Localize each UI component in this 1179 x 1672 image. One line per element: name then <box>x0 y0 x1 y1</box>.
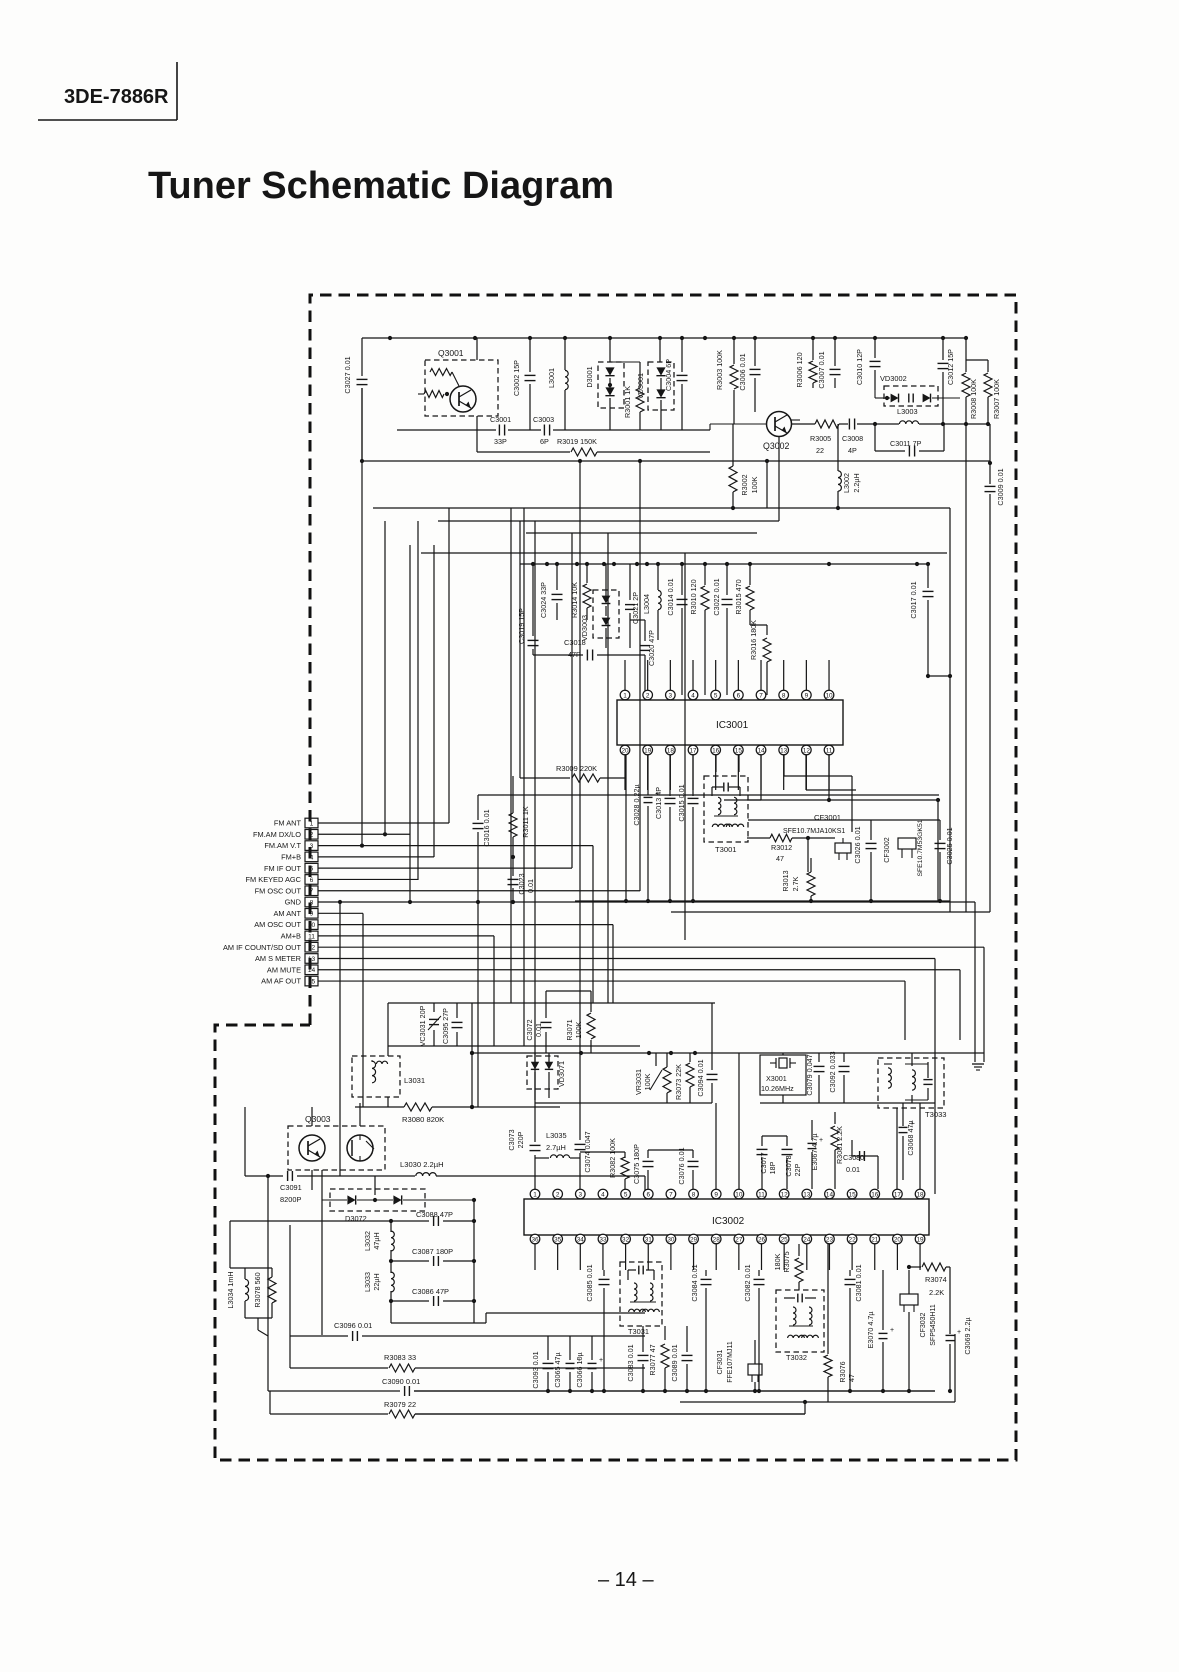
svg-text:9: 9 <box>714 1191 718 1198</box>
svg-text:28: 28 <box>713 1236 721 1243</box>
svg-text:14: 14 <box>308 967 316 974</box>
svg-text:L3001: L3001 <box>547 368 556 388</box>
svg-text:220P: 220P <box>516 1131 525 1148</box>
svg-text:10: 10 <box>825 692 833 699</box>
svg-text:36: 36 <box>531 1236 539 1243</box>
svg-text:C3017 0.01: C3017 0.01 <box>909 581 918 618</box>
svg-text:4: 4 <box>601 1191 605 1198</box>
svg-text:C3082 0.01: C3082 0.01 <box>743 1264 752 1301</box>
svg-text:25: 25 <box>781 1236 789 1243</box>
svg-text:8200P: 8200P <box>280 1195 301 1204</box>
svg-text:C3020 47P: C3020 47P <box>647 630 656 666</box>
svg-text:12: 12 <box>781 1191 789 1198</box>
svg-text:C3081 0.01: C3081 0.01 <box>854 1264 863 1301</box>
svg-text:R3015 470: R3015 470 <box>734 579 743 614</box>
svg-text:T3001: T3001 <box>715 845 737 854</box>
svg-text:FFE107MJ11: FFE107MJ11 <box>727 1341 734 1383</box>
svg-text:11: 11 <box>308 933 315 940</box>
svg-text:20: 20 <box>621 747 629 754</box>
svg-text:L3032: L3032 <box>363 1231 372 1251</box>
svg-text:C3006 0.01: C3006 0.01 <box>738 353 747 390</box>
svg-text:C3008: C3008 <box>842 434 863 443</box>
svg-text:14: 14 <box>826 1191 834 1198</box>
svg-text:1: 1 <box>310 820 314 827</box>
svg-text:Tuner Schematic Diagram: Tuner Schematic Diagram <box>148 165 614 207</box>
svg-text:VD3002: VD3002 <box>880 374 907 383</box>
svg-text:FM KEYED AGC: FM KEYED AGC <box>246 875 302 884</box>
svg-text:R3011 1K: R3011 1K <box>521 806 530 838</box>
svg-text:CF3031: CF3031 <box>717 1349 724 1374</box>
svg-text:X3001: X3001 <box>766 1074 787 1083</box>
svg-text:L3033: L3033 <box>363 1272 372 1292</box>
svg-text:C3019 15P: C3019 15P <box>517 608 526 644</box>
svg-text:L3031: L3031 <box>404 1076 425 1085</box>
svg-text:IC3001: IC3001 <box>716 720 749 731</box>
svg-text:12: 12 <box>308 945 316 952</box>
svg-text:C3083 0.01: C3083 0.01 <box>626 1344 635 1381</box>
svg-text:R3071: R3071 <box>565 1019 574 1040</box>
svg-text:C3003: C3003 <box>533 415 554 424</box>
svg-text:SFE10.7M53GK51: SFE10.7M53GK51 <box>917 819 924 876</box>
svg-text:C3090 0.01: C3090 0.01 <box>382 1377 420 1386</box>
svg-text:9: 9 <box>310 911 314 918</box>
svg-text:C3077: C3077 <box>759 1152 768 1173</box>
svg-text:R3010 120: R3010 120 <box>689 579 698 614</box>
svg-text:6: 6 <box>737 692 741 699</box>
svg-text:FM IF OUT: FM IF OUT <box>264 864 301 873</box>
svg-text:8: 8 <box>782 692 786 699</box>
svg-text:L3002: L3002 <box>842 473 851 493</box>
svg-text:C3022 0.01: C3022 0.01 <box>712 578 721 615</box>
svg-text:C3068 47µ: C3068 47µ <box>906 1120 915 1155</box>
svg-text:7: 7 <box>669 1191 673 1198</box>
svg-text:9: 9 <box>805 692 809 699</box>
svg-text:R3001 1K: R3001 1K <box>623 386 632 418</box>
svg-text:R3003 100K: R3003 100K <box>715 350 724 390</box>
svg-text:15: 15 <box>308 978 316 985</box>
svg-text:100K: 100K <box>574 1021 583 1038</box>
svg-text:C3011 7P: C3011 7P <box>890 439 922 448</box>
svg-text:E3067 4.7µ: E3067 4.7µ <box>810 1134 819 1171</box>
svg-text:4P: 4P <box>848 446 857 455</box>
svg-text:C3080: C3080 <box>843 1153 864 1162</box>
svg-text:33P: 33P <box>494 437 507 446</box>
svg-text:19: 19 <box>644 747 652 754</box>
svg-text:180K: 180K <box>773 1253 782 1270</box>
svg-text:AM OSC OUT: AM OSC OUT <box>254 920 301 929</box>
svg-text:22: 22 <box>816 446 824 455</box>
svg-text:+: + <box>957 1329 961 1336</box>
svg-text:AM MUTE: AM MUTE <box>267 965 301 974</box>
svg-text:100K: 100K <box>643 1073 652 1090</box>
svg-text:8: 8 <box>310 899 314 906</box>
svg-text:AM IF COUNT/SD OUT: AM IF COUNT/SD OUT <box>223 943 301 952</box>
svg-text:6: 6 <box>646 1191 650 1198</box>
svg-text:18: 18 <box>667 747 675 754</box>
svg-text:19: 19 <box>916 1236 924 1243</box>
svg-text:R3012: R3012 <box>771 843 792 852</box>
svg-text:AM ANT: AM ANT <box>273 909 301 918</box>
svg-text:C3028 0.22µ: C3028 0.22µ <box>632 784 641 825</box>
svg-text:Q3002: Q3002 <box>763 441 790 451</box>
svg-text:GND: GND <box>285 898 301 907</box>
svg-text:47µH: 47µH <box>372 1232 381 1249</box>
svg-text:C3009 0.01: C3009 0.01 <box>996 468 1005 505</box>
svg-text:21: 21 <box>871 1236 879 1243</box>
svg-text:0.01: 0.01 <box>534 1023 543 1037</box>
svg-text:R3074: R3074 <box>925 1275 947 1284</box>
svg-text:C3073: C3073 <box>507 1129 516 1150</box>
svg-text:VR3031: VR3031 <box>634 1069 643 1095</box>
svg-text:Q3001: Q3001 <box>438 348 464 358</box>
svg-text:14: 14 <box>757 747 765 754</box>
svg-text:C3089 0.01: C3089 0.01 <box>670 1344 679 1381</box>
svg-text:R3080 820K: R3080 820K <box>402 1115 444 1124</box>
svg-text:23: 23 <box>826 1236 834 1243</box>
svg-text:1: 1 <box>623 692 627 699</box>
svg-text:C3087 180P: C3087 180P <box>412 1247 453 1256</box>
svg-text:3DE-7886R: 3DE-7886R <box>64 86 169 108</box>
svg-text:D3001: D3001 <box>585 366 594 387</box>
svg-text:C3023: C3023 <box>517 873 526 894</box>
svg-text:24: 24 <box>803 1236 811 1243</box>
svg-text:SFP5450H11: SFP5450H11 <box>930 1304 937 1346</box>
svg-text:18: 18 <box>916 1191 924 1198</box>
svg-text:5: 5 <box>310 866 314 873</box>
svg-text:22: 22 <box>849 1236 857 1243</box>
svg-text:R3077 47: R3077 47 <box>648 1344 657 1375</box>
svg-text:AM AF OUT: AM AF OUT <box>261 977 301 986</box>
svg-text:R3008 100K: R3008 100K <box>969 379 978 419</box>
svg-text:C3018: C3018 <box>564 638 586 647</box>
svg-text:C3010 12P: C3010 12P <box>855 349 864 385</box>
svg-text:47: 47 <box>776 854 784 863</box>
svg-text:31: 31 <box>645 1236 653 1243</box>
svg-text:32: 32 <box>622 1236 630 1243</box>
svg-text:3: 3 <box>310 843 314 850</box>
svg-text:C3093 0.01: C3093 0.01 <box>531 1351 540 1388</box>
svg-text:C3004 6P: C3004 6P <box>664 359 673 391</box>
svg-text:C3086 47P: C3086 47P <box>412 1287 449 1296</box>
svg-text:R3019 150K: R3019 150K <box>557 437 597 446</box>
svg-text:VC3031 20P: VC3031 20P <box>418 1005 427 1046</box>
svg-text:R3002: R3002 <box>740 474 749 495</box>
svg-text:2: 2 <box>556 1191 560 1198</box>
svg-text:22µH: 22µH <box>372 1273 381 1290</box>
svg-text:AM+B: AM+B <box>281 932 301 941</box>
svg-text:C3021 2P: C3021 2P <box>631 592 640 624</box>
svg-text:18P: 18P <box>768 1161 777 1174</box>
svg-text:4: 4 <box>691 692 695 699</box>
svg-text:C3027 0.01: C3027 0.01 <box>343 356 352 393</box>
svg-text:15: 15 <box>849 1191 857 1198</box>
svg-text:L3030 2.2µH: L3030 2.2µH <box>400 1160 444 1169</box>
svg-text:7: 7 <box>759 692 763 699</box>
svg-text:13: 13 <box>780 747 788 754</box>
svg-text:16: 16 <box>712 747 720 754</box>
svg-text:FM OSC OUT: FM OSC OUT <box>255 886 302 895</box>
svg-text:FM ANT: FM ANT <box>274 819 302 828</box>
svg-text:27: 27 <box>735 1236 743 1243</box>
svg-text:2.2K: 2.2K <box>929 1288 944 1297</box>
svg-text:R3073 22K: R3073 22K <box>674 1064 683 1100</box>
svg-text:30: 30 <box>667 1236 675 1243</box>
svg-text:R3005: R3005 <box>810 434 831 443</box>
svg-text:C3015 0.01: C3015 0.01 <box>677 784 686 821</box>
svg-text:22P: 22P <box>793 1163 802 1176</box>
svg-text:R3083 33: R3083 33 <box>384 1353 416 1362</box>
svg-text:26: 26 <box>758 1236 766 1243</box>
svg-text:100K: 100K <box>750 476 759 493</box>
svg-text:R3014 10K: R3014 10K <box>570 582 579 618</box>
svg-text:13: 13 <box>308 956 316 963</box>
svg-text:C3025 0.01: C3025 0.01 <box>945 827 954 864</box>
svg-text:C3013 4P: C3013 4P <box>654 787 663 819</box>
svg-text:C3024 33P: C3024 33P <box>539 582 548 618</box>
svg-text:C3016 0.01: C3016 0.01 <box>482 809 491 846</box>
svg-text:C3066 10µ: C3066 10µ <box>575 1352 584 1387</box>
svg-text:L3035: L3035 <box>546 1131 567 1140</box>
svg-text:17: 17 <box>689 747 697 754</box>
svg-text:47P: 47P <box>568 650 581 659</box>
svg-text:+: + <box>890 1327 894 1334</box>
svg-text:29: 29 <box>690 1236 698 1243</box>
svg-text:T3032: T3032 <box>786 1353 807 1362</box>
svg-text:2.2µH: 2.2µH <box>852 473 861 492</box>
svg-text:C3084 0.01: C3084 0.01 <box>690 1264 699 1301</box>
svg-text:2: 2 <box>646 692 650 699</box>
svg-text:35: 35 <box>554 1236 562 1243</box>
svg-text:FM+B: FM+B <box>281 852 301 861</box>
svg-text:2: 2 <box>310 832 314 839</box>
svg-text:7: 7 <box>310 888 314 895</box>
svg-text:R3078 560: R3078 560 <box>253 1272 262 1307</box>
svg-text:C3026 0.01: C3026 0.01 <box>853 826 862 863</box>
svg-text:+: + <box>599 1357 603 1364</box>
svg-text:T3033: T3033 <box>925 1110 947 1119</box>
svg-text:C3014 0.01: C3014 0.01 <box>666 578 675 615</box>
svg-text:C3092 0.033: C3092 0.033 <box>828 1051 837 1092</box>
svg-text:20: 20 <box>894 1236 902 1243</box>
svg-text:R3075: R3075 <box>782 1251 791 1272</box>
svg-text:2.7K: 2.7K <box>791 876 800 891</box>
svg-text:6P: 6P <box>540 437 549 446</box>
svg-text:R3016 180K: R3016 180K <box>749 620 758 660</box>
svg-text:SFE10.7MJA10KS1: SFE10.7MJA10KS1 <box>783 828 845 835</box>
svg-text:AM S METER: AM S METER <box>255 954 301 963</box>
svg-text:0.01: 0.01 <box>526 879 535 893</box>
svg-text:C3094 0.01: C3094 0.01 <box>696 1059 705 1096</box>
svg-text:12: 12 <box>803 747 811 754</box>
svg-text:2.7µH: 2.7µH <box>546 1143 566 1152</box>
svg-text:L3004: L3004 <box>642 594 651 614</box>
svg-text:C3078: C3078 <box>784 1155 793 1176</box>
svg-text:+: + <box>819 1137 823 1144</box>
svg-text:33: 33 <box>599 1236 607 1243</box>
svg-text:Q3003: Q3003 <box>305 1114 331 1124</box>
svg-text:15: 15 <box>735 747 743 754</box>
svg-text:C3069 2.2µ: C3069 2.2µ <box>963 1317 972 1354</box>
svg-text:IC3002: IC3002 <box>712 1216 745 1227</box>
svg-text:17: 17 <box>894 1191 902 1198</box>
svg-text:3: 3 <box>669 692 673 699</box>
svg-text:FM.AM V.T: FM.AM V.T <box>264 841 301 850</box>
svg-text:C3065 47µ: C3065 47µ <box>553 1352 562 1387</box>
svg-text:11: 11 <box>758 1191 765 1198</box>
svg-text:FM.AM DX/LO: FM.AM DX/LO <box>253 830 301 839</box>
svg-text:34: 34 <box>577 1236 585 1243</box>
svg-text:8: 8 <box>692 1191 696 1198</box>
svg-text:R3009 220K: R3009 220K <box>556 764 597 773</box>
svg-text:– 14 –: – 14 – <box>598 1569 654 1591</box>
svg-text:0.01: 0.01 <box>846 1165 860 1174</box>
svg-text:47: 47 <box>847 1374 856 1382</box>
svg-text:C3091: C3091 <box>280 1183 302 1192</box>
svg-text:C3075 180P: C3075 180P <box>632 1144 641 1184</box>
svg-text:L3034 1mH: L3034 1mH <box>226 1271 235 1308</box>
svg-text:CF3032: CF3032 <box>920 1312 927 1337</box>
svg-text:CF3002: CF3002 <box>882 837 891 863</box>
svg-text:VD3001: VD3001 <box>636 373 645 399</box>
svg-text:13: 13 <box>803 1191 811 1198</box>
svg-text:5: 5 <box>624 1191 628 1198</box>
svg-text:R3013: R3013 <box>781 870 790 891</box>
svg-text:C3096 0.01: C3096 0.01 <box>334 1321 372 1330</box>
svg-text:C3095 27P: C3095 27P <box>441 1008 450 1044</box>
svg-text:C3088 47P: C3088 47P <box>416 1210 453 1219</box>
svg-text:16: 16 <box>871 1191 879 1198</box>
svg-text:5: 5 <box>714 692 718 699</box>
svg-text:VD3071: VD3071 <box>557 1061 566 1087</box>
svg-text:CF3001: CF3001 <box>814 813 841 822</box>
svg-text:C3085 0.01: C3085 0.01 <box>585 1264 594 1301</box>
svg-text:C3002 15P: C3002 15P <box>512 360 521 396</box>
svg-text:11: 11 <box>826 747 833 754</box>
svg-text:C3072: C3072 <box>525 1019 534 1040</box>
svg-text:C3001: C3001 <box>490 415 511 424</box>
svg-text:C3012 15P: C3012 15P <box>946 349 955 385</box>
svg-text:R3082 100K: R3082 100K <box>608 1138 617 1178</box>
svg-text:R3006 120: R3006 120 <box>795 352 804 387</box>
svg-text:L3003: L3003 <box>897 407 918 416</box>
svg-text:R3076: R3076 <box>838 1361 847 1382</box>
svg-text:3: 3 <box>579 1191 583 1198</box>
svg-text:4: 4 <box>310 854 314 861</box>
svg-text:C3076 0.01: C3076 0.01 <box>677 1147 686 1184</box>
svg-text:E3070 4.7µ: E3070 4.7µ <box>866 1312 875 1349</box>
svg-text:10: 10 <box>308 922 316 929</box>
svg-text:10: 10 <box>735 1191 743 1198</box>
svg-text:C3079 0.047: C3079 0.047 <box>805 1054 814 1095</box>
svg-text:C3007 0.01: C3007 0.01 <box>817 351 826 388</box>
svg-text:6: 6 <box>310 877 314 884</box>
svg-text:1: 1 <box>533 1191 537 1198</box>
svg-text:10.26MHz: 10.26MHz <box>761 1084 794 1093</box>
svg-text:D3072: D3072 <box>345 1214 367 1223</box>
svg-text:T3031: T3031 <box>628 1327 649 1336</box>
svg-text:R3007 100K: R3007 100K <box>992 379 1001 419</box>
svg-text:R3079 22: R3079 22 <box>384 1400 416 1409</box>
